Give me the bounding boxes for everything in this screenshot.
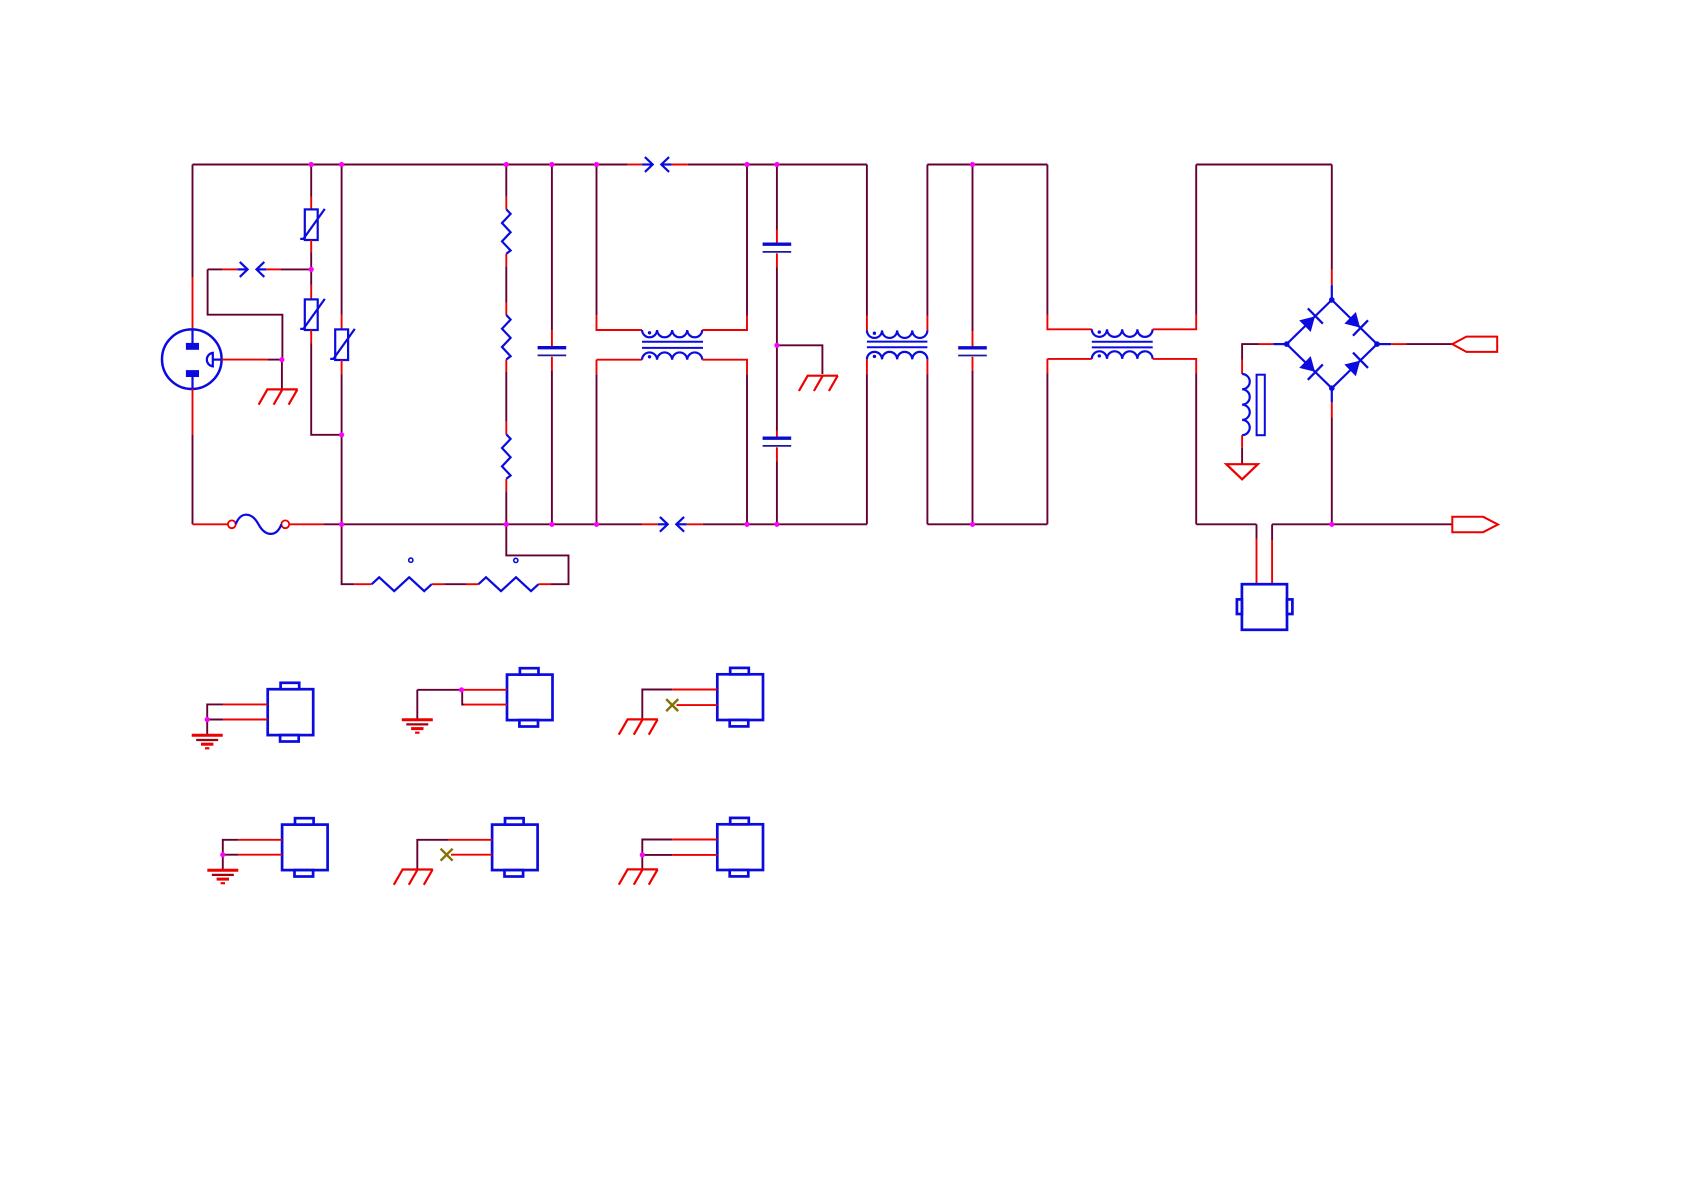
common-mode choke L3	[1092, 329, 1153, 359]
node bridge left	[1284, 341, 1290, 347]
varistor RV2	[300, 299, 325, 330]
capacitor C2 (Y-cap)	[763, 244, 792, 252]
fuse F1	[228, 515, 289, 534]
no-connect X block E	[441, 849, 453, 861]
wire X-cap1 rail	[551, 165, 553, 525]
resistor R1	[502, 209, 511, 254]
wire resistor chain rail	[505, 165, 507, 525]
thermal cutout S1	[1237, 584, 1293, 630]
block C connector	[717, 668, 763, 727]
chassis ground block C	[619, 719, 658, 734]
wire bottom bus segment 3	[1196, 523, 1256, 525]
junction dot plug ground node	[279, 357, 284, 362]
varistor RV1	[300, 209, 325, 240]
wire X-cap2 rail	[972, 165, 974, 525]
wire choke L2 left rail	[866, 165, 868, 525]
resistor R2	[502, 315, 511, 360]
junction dot block F	[640, 852, 645, 857]
wire RV2 bottom jog	[311, 330, 341, 435]
wire bottom bus segment 1 (N rail)	[342, 523, 867, 525]
wire thermal cutout right pin	[1271, 524, 1273, 584]
wire bridge right to output	[1377, 343, 1452, 345]
common-mode choke L2	[867, 330, 928, 359]
chassis ground at plug	[259, 389, 298, 404]
wire bottom bus segment 2	[927, 523, 1047, 525]
junction dot Y-cap mid node	[774, 343, 779, 348]
spark gap E2 on bottom bus	[642, 517, 703, 532]
wire choke L1 left rail	[597, 165, 643, 525]
resistor R4	[372, 577, 432, 591]
wire Y-cap mid	[776, 253, 778, 437]
diode D1d lower-right	[1344, 353, 1368, 377]
junction dot block D	[220, 852, 225, 857]
bridge rectifier D1 frame	[1287, 300, 1377, 388]
wire top bus segment 1 (L rail)	[193, 164, 867, 166]
capacitor C4 (X-cap)	[958, 348, 987, 356]
chassis ground at Y-caps	[799, 376, 838, 391]
varistor RV3	[330, 329, 355, 360]
capacitor C3 (Y-cap)	[763, 438, 792, 446]
junction dots bottom bus	[339, 522, 1334, 527]
chassis ground block F	[619, 869, 658, 884]
junction dot varistor jog node	[339, 432, 344, 437]
wire top bus segment 3	[1196, 164, 1332, 166]
connector output plus	[1452, 337, 1497, 352]
connector output minus	[1452, 517, 1498, 532]
wire choke L3 right rail	[1153, 165, 1197, 525]
inductor L4	[1242, 374, 1265, 435]
block D connector	[282, 818, 328, 876]
wire varistor rail 2 lower	[341, 360, 343, 524]
wire bridge top feed	[1331, 165, 1333, 300]
wire fuse lead right	[289, 523, 341, 525]
earth ground block D	[207, 870, 238, 883]
resistor R5	[479, 577, 539, 591]
earth terminal triangle	[1226, 464, 1258, 479]
diode D1b upper-right	[1344, 312, 1368, 336]
block E connector	[492, 818, 537, 876]
spark gap E1 on top bus	[642, 157, 688, 172]
wire block E pins	[417, 840, 492, 869]
node bridge bottom	[1329, 385, 1335, 391]
wire thermal cutout left pin	[1256, 524, 1258, 584]
common-mode choke L1	[642, 330, 703, 360]
wire bridge bottom to bus	[1331, 388, 1333, 524]
block F connector	[717, 818, 763, 877]
wire block A pins	[207, 704, 268, 735]
wire plug ground pin	[221, 360, 282, 390]
wire block D pins	[223, 840, 282, 870]
earth ground block A	[192, 735, 223, 748]
block B connector	[507, 668, 553, 726]
wire between R4 R5	[432, 583, 479, 585]
junction dot block B	[459, 687, 464, 692]
wire choke L3 left rail	[1047, 165, 1091, 525]
wire block C pins	[642, 690, 717, 720]
earth ground block B	[402, 720, 433, 733]
wiper circle R4	[409, 558, 413, 562]
wire Y-cap rail lower	[776, 447, 778, 524]
wire spark gap loop	[208, 269, 312, 359]
wire varistor rail 2 upper	[341, 165, 343, 330]
node bridge top	[1329, 297, 1335, 303]
chassis ground block E	[394, 870, 433, 885]
block A connector	[268, 683, 314, 742]
wire RV1 to gap node	[310, 240, 312, 299]
wire bottom bus segment 4	[1272, 523, 1452, 525]
wire block F pins	[642, 840, 717, 870]
wire Y-cap rail upper	[776, 165, 778, 244]
no-connect X block C	[666, 699, 678, 711]
junction dot spark gap node	[309, 267, 314, 272]
wire choke L2 right rail	[926, 165, 928, 525]
capacitor C1 (X-cap)	[538, 348, 567, 356]
AC plug J1	[162, 329, 222, 389]
wire varistor rail 1 upper	[310, 165, 312, 210]
junction dots top bus	[309, 162, 976, 167]
wire fuse lead left	[193, 523, 228, 525]
wire shunt network left	[342, 524, 372, 584]
wire shunt network right	[506, 524, 568, 584]
wire left rail top (L)	[192, 165, 194, 331]
wire bridge left to inductor	[1242, 344, 1287, 374]
wire choke L1 right rail	[702, 165, 747, 525]
node bridge right	[1374, 341, 1380, 347]
wire block B pins	[417, 690, 507, 720]
resistor R3	[502, 434, 511, 479]
wire top bus segment 2	[927, 164, 1047, 166]
diode D1c lower-left	[1299, 356, 1323, 380]
wire inductor to earth	[1241, 435, 1243, 463]
wire left rail bottom (N)	[192, 389, 194, 525]
diode D1a upper-left	[1299, 308, 1323, 332]
spark gap E3 (line-to-ground)	[238, 262, 267, 277]
wire ground stub	[777, 345, 823, 374]
wiper circle R5	[514, 558, 518, 562]
junction dot block A	[205, 717, 210, 722]
